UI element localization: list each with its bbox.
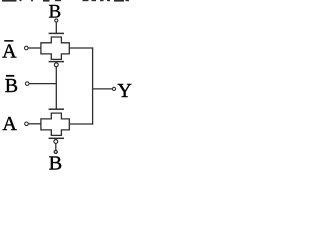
wire B terminal to TG1 top gate bbox=[55, 22, 57, 33]
terminal B-bar bbox=[25, 82, 29, 86]
node A-bar label bbox=[2, 40, 17, 62]
terminal B bottom bbox=[54, 150, 57, 153]
wire to Y bbox=[93, 88, 113, 90]
TG1 bottom gate bar bbox=[49, 61, 64, 63]
svg-text:A: A bbox=[2, 40, 17, 62]
svg-text:A: A bbox=[2, 113, 17, 135]
TG2 bottom gate bubble bbox=[54, 140, 58, 144]
terminal Y bbox=[112, 87, 115, 90]
wire TG1 output bbox=[69, 47, 93, 49]
wire TG2 output bbox=[69, 123, 93, 125]
wire A-bar to TG1 input bbox=[28, 47, 41, 49]
wire B-bar to gate net bbox=[29, 83, 56, 85]
svg-text:Y: Y bbox=[117, 80, 131, 102]
transmission gate TG1 body bbox=[41, 37, 69, 59]
terminal B top bbox=[55, 19, 58, 22]
TG1 bottom gate bubble bbox=[54, 63, 58, 67]
TG2 bottom gate bar bbox=[49, 137, 64, 139]
wire output bus (vertical) bbox=[92, 47, 94, 124]
svg-text:B: B bbox=[49, 153, 63, 173]
terminal A-bar bbox=[25, 46, 29, 50]
wire TG1 bubble to TG2 top gate (B-bar net) bbox=[55, 67, 57, 110]
wire TG2 bubble to B terminal bbox=[55, 143, 57, 150]
cropped text row (top edge remnants) bbox=[2, 0, 129, 2]
svg-text:B: B bbox=[5, 75, 18, 97]
terminal A bbox=[25, 122, 29, 126]
TG2 top gate bar bbox=[49, 108, 64, 110]
node B-bar label bbox=[5, 75, 18, 97]
transmission gate TG2 body bbox=[41, 113, 69, 135]
TG1 top gate bar bbox=[49, 32, 64, 34]
wire A to TG2 input bbox=[28, 123, 41, 125]
